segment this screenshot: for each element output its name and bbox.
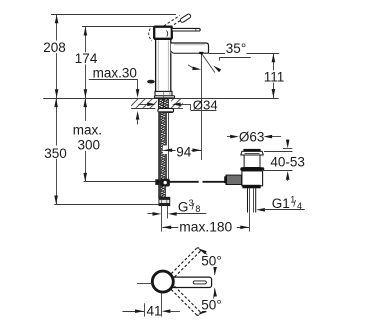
svg-text:max.180: max.180	[179, 220, 232, 235]
svg-text:40-53: 40-53	[270, 154, 305, 169]
svg-text:300: 300	[78, 138, 101, 153]
svg-text:35°: 35°	[226, 41, 246, 56]
svg-text:50°: 50°	[201, 254, 221, 269]
svg-text:max.30: max.30	[93, 66, 137, 81]
svg-text:4: 4	[297, 201, 302, 211]
svg-text:350: 350	[44, 146, 67, 161]
svg-text:8: 8	[195, 204, 200, 214]
svg-text:41: 41	[147, 303, 162, 318]
svg-text:G1: G1	[272, 196, 290, 211]
svg-text:G: G	[178, 200, 189, 215]
svg-text:/: /	[293, 198, 296, 209]
svg-text:max.: max.	[73, 122, 102, 137]
svg-text:Ø63: Ø63	[239, 130, 265, 145]
svg-text:208: 208	[43, 40, 66, 55]
svg-text:50°: 50°	[201, 298, 221, 313]
svg-text:111: 111	[264, 69, 285, 84]
svg-text:/: /	[192, 202, 195, 213]
svg-text:174: 174	[75, 51, 98, 66]
svg-text:94: 94	[176, 145, 192, 160]
svg-text:Ø34: Ø34	[193, 97, 218, 112]
